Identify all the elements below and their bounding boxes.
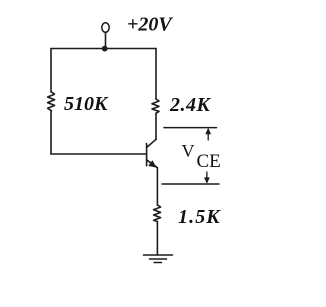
ground — [144, 255, 173, 263]
transistor Q1 emitter arrow — [148, 160, 157, 168]
svg-text:V: V — [182, 141, 195, 161]
resistor R2 2.4K zigzag — [152, 99, 159, 113]
wire top rail — [51, 48, 156, 50]
VCE down arrow — [204, 172, 210, 184]
svg-text:2.4K: 2.4K — [169, 94, 212, 116]
svg-text:510K: 510K — [64, 93, 109, 115]
junction dot — [102, 46, 108, 52]
wire to ground — [156, 222, 158, 256]
svg-text:1.5K: 1.5K — [178, 206, 221, 228]
resistor R3 1.5K zigzag — [154, 205, 161, 222]
VCE up arrow — [205, 128, 211, 140]
wire right rail upper — [155, 49, 157, 100]
VCE top reference line — [164, 127, 217, 129]
resistor R1 510K zigzag — [48, 92, 55, 111]
svg-text:CE: CE — [197, 151, 221, 172]
transistor Q1 emitter lead — [147, 160, 158, 168]
wire emitter vertical — [156, 168, 158, 205]
wire terminal stub — [105, 32, 107, 48]
wire right rail to collector — [155, 113, 157, 139]
svg-text:+20V: +20V — [127, 14, 173, 36]
wire base — [51, 153, 147, 155]
transistor Q1 base bar — [146, 144, 148, 166]
wire left rail lower — [50, 111, 52, 154]
transistor Q1 collector lead — [147, 139, 157, 147]
wire left rail upper — [50, 49, 52, 93]
VCE bottom reference line — [162, 183, 219, 185]
power terminal — [102, 23, 109, 33]
